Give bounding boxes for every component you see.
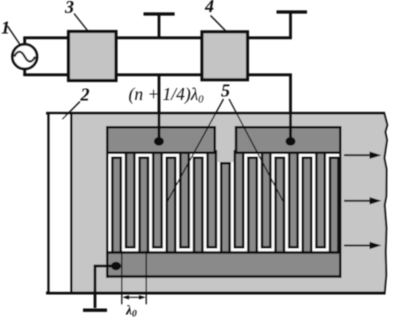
wire: bottom rail from source to right stub [23,73,292,76]
finger B4 [193,157,204,257]
notch between pads (substrate shows) [217,140,233,162]
leader for label 2 [62,102,80,120]
finger T6 [261,150,272,249]
antenna/ground T symbol (right) [277,12,308,37]
contact dot on left pad [154,137,164,146]
svg-text:5: 5 [221,81,230,101]
svg-text:4: 4 [204,0,214,16]
substrate left polished face (white strip) [50,114,70,291]
substrate torn right edge [384,113,387,295]
ground bar [83,309,107,312]
transducer 5 upper-comb fingers [125,150,326,249]
SAW propagation arrow 3 [344,242,382,249]
finger T4 [206,150,217,249]
contact dot on bottom bus [111,262,121,271]
finger T3 [179,150,190,249]
substrate 2 (piezoelectric plate, torn right edge) [47,113,387,295]
finger B-center [220,162,231,256]
wire: stem to right pad contact [289,75,292,140]
finger B1 [111,157,122,257]
svg-text:λ0: λ0 [125,302,137,319]
finger T2 [152,150,163,249]
finger B5 [247,157,258,257]
leader for label 4 [211,16,226,31]
comb left border [106,126,108,278]
svg-text:2: 2 [80,85,90,105]
finger T7 [288,150,299,249]
matching box 3 [69,32,117,81]
substrate top edge [46,112,385,115]
finger B6 [274,157,285,257]
antenna/ground T symbol (middle) [144,14,175,37]
lambda0 dimension line left [121,251,123,304]
comb right border [339,126,341,278]
finger T1 [125,150,136,249]
contact dot on right pad [286,137,296,146]
finger T5 [234,150,245,249]
wire: top rail from source to right stub [23,36,292,39]
bottom common bus bar [106,251,342,278]
finger B3 [166,157,177,257]
right top bus pad [235,126,342,154]
wire: bottom bus to ground [95,266,116,308]
finger B7 [302,157,313,257]
transducer 5 white gap background [106,154,342,253]
substrate left edge line [47,112,50,294]
SAW propagation arrow 1 [344,152,382,159]
lambda0 dimension line right [145,251,147,304]
AC source 1 [12,44,37,69]
matching box 4 [202,32,248,80]
wire: source left vertical [23,38,26,75]
svg-text:3: 3 [64,0,74,17]
leader for label 3 [74,14,88,31]
svg-text:(n +1/4)λ0: (n +1/4)λ0 [129,84,205,106]
center lower finger tip cap [220,162,231,165]
wire: stem to left pad contact [158,75,161,140]
substrate bottom edge [46,292,385,295]
SAW propagation arrow 2 [344,197,382,204]
leader A for label 5 [167,99,224,202]
transducer 5 lower-comb fingers [111,157,340,257]
lambda0 dimension double arrow [123,295,146,299]
finger B8 [329,157,340,257]
leader for label 1 [8,26,21,45]
left top bus pad [106,126,216,154]
leader B for label 5 [229,99,284,203]
substrate face inner edge line [70,113,73,293]
finger T8 [315,150,326,249]
finger B2 [138,157,149,257]
